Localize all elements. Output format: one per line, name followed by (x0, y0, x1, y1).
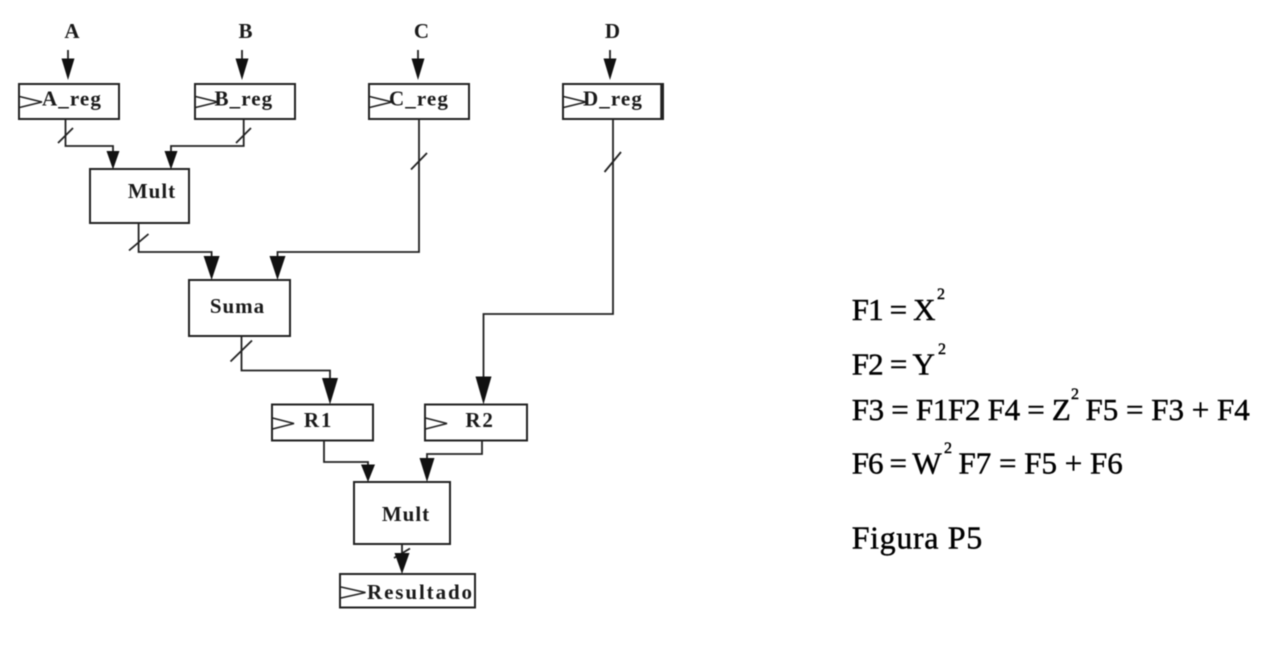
svg-text:D: D (605, 19, 620, 43)
svg-text:C_reg: C_reg (389, 87, 449, 111)
svg-text:R1: R1 (304, 408, 333, 432)
svg-text:F6 = W: F6 = W (852, 446, 943, 481)
svg-text:2: 2 (937, 286, 945, 303)
svg-text:R2: R2 (465, 408, 494, 432)
svg-text:2: 2 (938, 341, 946, 358)
svg-text:A: A (64, 19, 80, 43)
svg-text:2: 2 (944, 440, 952, 457)
svg-text:F2 = Y: F2 = Y (852, 347, 935, 382)
svg-text:Resultado: Resultado (367, 580, 474, 604)
svg-text:2: 2 (1071, 386, 1079, 403)
svg-text:B_reg: B_reg (215, 87, 274, 111)
svg-text:A_reg: A_reg (42, 87, 102, 111)
svg-text:B: B (238, 19, 252, 43)
svg-text:F1 = X: F1 = X (852, 292, 935, 327)
svg-text:F7 = F5 + F6: F7 = F5 + F6 (959, 446, 1123, 481)
svg-text:Mult: Mult (128, 179, 176, 203)
svg-text:Figura P5: Figura P5 (852, 520, 983, 556)
svg-text:F3 = F1F2 F4 = Z: F3 = F1F2 F4 = Z (852, 392, 1071, 427)
svg-text:Suma: Suma (210, 294, 265, 318)
svg-text:F5 = F3 + F4: F5 = F3 + F4 (1086, 392, 1251, 427)
svg-text:C: C (414, 19, 429, 43)
svg-text:D_reg: D_reg (583, 87, 643, 111)
svg-text:Mult: Mult (382, 502, 430, 526)
